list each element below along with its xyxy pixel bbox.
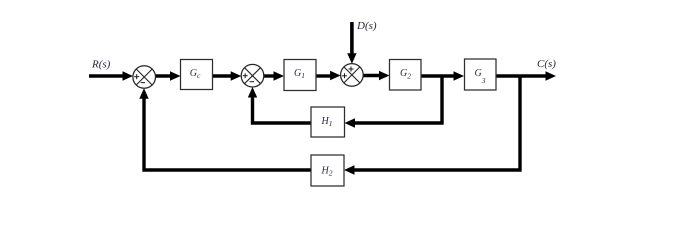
svg-text:D(s): D(s) xyxy=(356,20,377,32)
svg-text:C(s): C(s) xyxy=(537,58,556,70)
svg-text:R(s): R(s) xyxy=(91,59,111,71)
